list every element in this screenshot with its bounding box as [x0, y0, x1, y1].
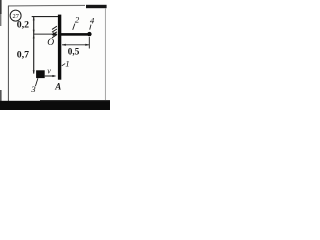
svg-text:1: 1 — [65, 58, 69, 68]
arrowhead up below O level (0,7 dim) — [33, 35, 35, 39]
problem number circle 27 — [10, 10, 21, 21]
svg-text:A: A — [54, 81, 61, 91]
page background — [0, 0, 110, 110]
frame left border — [7, 6, 9, 101]
arrowhead up at top (0,2 dim) — [33, 17, 35, 21]
svg-text:O: O — [47, 38, 54, 48]
svg-text:0,5: 0,5 — [68, 47, 80, 57]
bottom black band — [0, 101, 110, 110]
arrowhead down at O level (0,2 dim) — [33, 30, 35, 34]
svg-text:4: 4 — [90, 15, 95, 25]
vertical dimension line — [33, 17, 35, 74]
arm 2 (thick horizontal bar) — [61, 33, 89, 36]
svg-text:0,2: 0,2 — [17, 20, 29, 31]
frame top-right thick black band — [86, 5, 107, 8]
label 3 with leader — [35, 78, 38, 86]
svg-text:v: v — [47, 67, 51, 76]
svg-text:0,7: 0,7 — [17, 49, 29, 60]
top extension line from rod top — [32, 16, 59, 18]
frame top border — [8, 4, 85, 7]
velocity arrow — [45, 75, 53, 77]
pivot hatching at O — [52, 26, 57, 29]
bullet 3 (black square) — [36, 70, 45, 78]
ball 4 at end of arm — [87, 32, 91, 36]
svg-text:3: 3 — [30, 84, 36, 94]
left arrowhead of 0,5 — [62, 44, 66, 46]
right arrowhead of 0,5 — [85, 44, 89, 46]
extension line below ball — [88, 37, 90, 49]
middle extension line to pivot O with right arrow — [34, 33, 54, 35]
arrowhead down at bullet level (0,7 dim) — [33, 70, 35, 74]
0,5 dimension line — [62, 44, 89, 46]
left page-edge dark strip — [0, 0, 2, 14]
svg-text:2: 2 — [75, 14, 80, 24]
rod 1 (thick vertical bar) — [58, 15, 61, 80]
frame right border — [104, 9, 106, 101]
label 1 with leader — [62, 64, 65, 66]
